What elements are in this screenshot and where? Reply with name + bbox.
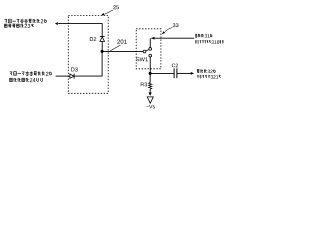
- label 25: [113, 5, 119, 9]
- wire driver to SW1 top: [149, 38, 151, 47]
- label 33: [173, 23, 179, 27]
- label D3: [71, 67, 77, 71]
- text: probe transceiver 2 phasing adder 24 (from): [10, 71, 13, 73]
- switch SW1 contacts: [149, 48, 152, 51]
- diode D3: [70, 74, 74, 78]
- resistor R3: [149, 82, 152, 89]
- wire from phasing adder to D3: [56, 75, 70, 77]
- label 25 leader arrow: [105, 10, 113, 14]
- label 33 leader arrow: [165, 28, 172, 32]
- wire top-left horizontal: [58, 23, 102, 25]
- diode D2: [100, 36, 105, 38]
- arrow into -Vs: [148, 93, 151, 96]
- junction at C2/R3: [149, 72, 152, 75]
- dashed box 25: [68, 15, 108, 93]
- label 201 leader: [110, 45, 120, 51]
- label C2: [172, 64, 178, 68]
- wire C2 to preamp arrow: [177, 72, 191, 74]
- wire R3 to supply: [149, 89, 151, 92]
- switch SW1 arm: [146, 50, 149, 51]
- wire node2 to R3: [149, 73, 151, 82]
- label D2: [90, 37, 96, 41]
- wire node201 to SW1: [102, 50, 143, 52]
- arrow to common connection: [55, 22, 58, 25]
- wire D3 to node: [74, 75, 102, 77]
- label 201: [117, 40, 126, 44]
- supply -Vs triangle: [147, 97, 153, 103]
- capacitor C2: [173, 68, 175, 78]
- text: from transmitter 31 linear driver 316: [195, 34, 197, 38]
- text: to receiver 32 preamp 321: [197, 69, 200, 71]
- wire node2 to C2: [150, 72, 174, 74]
- text: probe transceiver 2 common connection 23 (to): [4, 18, 7, 20]
- wire node down to D3 branch: [101, 51, 103, 76]
- label R3: [141, 83, 147, 87]
- label -Vs: [146, 105, 155, 109]
- node 201 junction: [101, 50, 104, 53]
- wire SW1 to node2: [149, 57, 151, 74]
- wire D2 to node: [101, 41, 103, 51]
- dashed box 33: [136, 29, 161, 69]
- label SW1: [136, 57, 147, 61]
- wire from linear driver 316: [151, 37, 194, 39]
- wire down to D2: [101, 23, 103, 36]
